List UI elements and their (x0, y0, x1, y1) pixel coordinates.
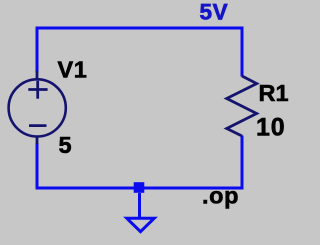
wire bottom horizontal (node 0) (36, 187, 244, 190)
wire left vertical upper (36, 27, 39, 73)
junction node square (134, 182, 145, 193)
svg-text:.op: .op (202, 183, 239, 209)
wire right vertical upper (241, 27, 244, 77)
wire ground stub (138, 193, 141, 217)
svg-text:V1: V1 (58, 57, 88, 83)
resistor R1 body (227, 76, 257, 136)
V1 plus terminal (28, 88, 47, 91)
voltage source V1 body (9, 71, 66, 144)
svg-text:10: 10 (256, 114, 285, 142)
ground (127, 218, 154, 231)
wire top horizontal (node 5V) (36, 27, 244, 30)
wire left vertical lower (36, 143, 39, 190)
svg-text:5V: 5V (200, 0, 229, 25)
svg-text:5: 5 (59, 132, 72, 158)
V1 minus terminal (29, 124, 47, 127)
svg-text:R1: R1 (259, 80, 289, 106)
wire right vertical lower (241, 136, 244, 190)
